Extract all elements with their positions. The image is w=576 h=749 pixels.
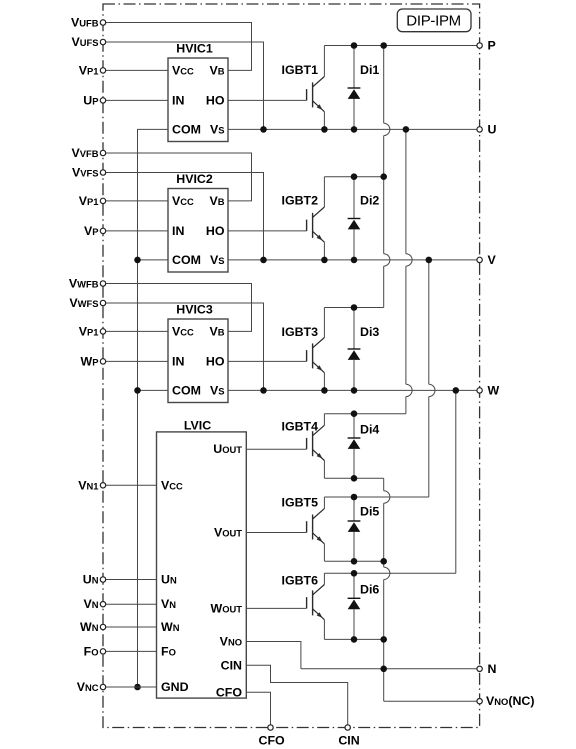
terminal VP1 (group 2)	[100, 198, 105, 203]
junction IGBT6 bottom rail - Di6 anode	[351, 636, 358, 643]
terminal label VVFS	[72, 166, 99, 180]
junction U rail - U feed	[403, 126, 410, 133]
wire WN to LVIC WN	[103, 626, 157, 628]
terminal label VWFS	[69, 296, 98, 310]
HVIC2 pin label VS	[210, 253, 225, 267]
HVIC3 pin label IN	[172, 354, 184, 368]
transistor IGBT2	[307, 177, 325, 260]
svg-text:UP: UP	[83, 93, 98, 107]
svg-text:VB: VB	[209, 63, 224, 77]
svg-text:IGBT2: IGBT2	[282, 194, 319, 208]
svg-text:HO: HO	[206, 354, 225, 368]
HVIC3 pin label VCC	[172, 324, 194, 338]
svg-text:V: V	[488, 253, 497, 267]
HVIC1 pin label COM	[172, 122, 201, 136]
junction IGBT5 bottom rail - Di5 anode	[351, 558, 358, 565]
svg-text:VS: VS	[210, 253, 225, 267]
wire LVIC VNO to N node	[246, 642, 301, 669]
junction N rail - emitter bus	[380, 666, 387, 673]
svg-text:COM: COM	[172, 122, 201, 136]
svg-text:VNO(NC): VNO(NC)	[486, 694, 534, 708]
junction IGBT4 top rail - Di4	[351, 410, 358, 417]
svg-text:N: N	[488, 662, 497, 676]
HVIC2 pin label VCC	[172, 194, 194, 208]
wire WP to HVIC3 IN	[103, 360, 168, 362]
svg-text:COM: COM	[172, 253, 201, 267]
svg-text:HO: HO	[206, 224, 225, 238]
IGBT1 label	[282, 63, 319, 77]
svg-text:VN: VN	[161, 597, 176, 611]
svg-text:VP1: VP1	[79, 63, 99, 77]
junction IGBT4 bottom rail - Di4 anode	[351, 475, 358, 482]
svg-text:VP1: VP1	[79, 324, 99, 338]
transistor IGBT3	[307, 308, 325, 391]
diode Di5	[348, 497, 361, 561]
terminal P	[477, 43, 482, 48]
junction U rail - VxFS drop	[260, 126, 267, 133]
svg-text:VCC: VCC	[172, 324, 194, 338]
wire U phase rail (VS1)	[228, 128, 480, 130]
terminal label VNO(NC)	[486, 694, 534, 708]
LVIC pin label WN	[161, 620, 180, 634]
svg-text:UOUT: UOUT	[213, 442, 242, 456]
op-amp-style driver IC HVIC1 box	[168, 58, 228, 142]
package boundary frame (dash-dot)	[103, 4, 480, 728]
svg-text:Di2: Di2	[360, 194, 379, 208]
svg-text:FO: FO	[84, 644, 99, 658]
wire VP1 to HVIC3 VCC	[103, 330, 168, 332]
terminal label VP1 (group 1)	[79, 63, 99, 77]
junction U rail - diode anode	[351, 126, 358, 133]
LVIC pin label VNO	[220, 635, 242, 649]
junction COM bus - HVIC3 COM	[134, 387, 141, 394]
wire VNC to LVIC GND	[103, 686, 157, 688]
svg-text:VUFB: VUFB	[71, 16, 99, 30]
wire HVIC1 HO to IGBT1 gate	[228, 99, 307, 101]
wire N node rail	[301, 668, 480, 670]
wire U feed to IGBT4 collector	[406, 129, 412, 413]
wire V phase rail (VS2)	[228, 259, 480, 261]
junction IGBT5 bottom rail - emitter bus	[380, 558, 387, 565]
LVIC title	[184, 418, 211, 432]
svg-text:Di1: Di1	[360, 63, 379, 77]
LVIC pin label VCC	[161, 478, 183, 492]
junction COM bus - HVIC2 COM	[134, 257, 141, 264]
svg-text:IN: IN	[172, 354, 184, 368]
HVIC3 title	[176, 302, 213, 316]
junction IGBT3 top rail - Di3	[351, 304, 358, 311]
op-amp-style driver IC HVIC2 box	[168, 189, 228, 273]
wire IGBT5 emitter bottom rail	[324, 560, 383, 562]
svg-text:Di6: Di6	[360, 583, 379, 597]
terminal VWFB	[100, 281, 105, 286]
junction IGBT2 top rail - P feed	[380, 173, 387, 180]
terminal label CIN	[338, 734, 359, 748]
svg-text:CIN: CIN	[221, 658, 242, 672]
LVIC pin label CIN	[221, 658, 242, 672]
diode Di1	[348, 46, 361, 130]
diode Di3	[348, 308, 361, 391]
terminal VP1 (group 1)	[100, 68, 105, 73]
svg-text:IN: IN	[172, 224, 184, 238]
wire HVIC3 HO to IGBT3 gate	[228, 360, 307, 362]
wire IGBT6 collector top rail	[324, 572, 455, 574]
svg-text:W: W	[488, 383, 500, 397]
terminal VP	[100, 228, 105, 233]
HVIC2 title	[176, 172, 213, 186]
wire VUFS to VS rail	[103, 42, 264, 129]
junction W rail - IGBT emitter	[321, 387, 328, 394]
wire VVFB bootstrap to HVIC2 VB	[103, 153, 252, 201]
HVIC2 pin label VB	[209, 194, 224, 208]
svg-text:UN: UN	[83, 573, 99, 587]
terminal CFO	[268, 725, 273, 730]
terminal V	[477, 257, 482, 262]
wire LVIC UOUT to IGBT4 gate	[246, 448, 306, 450]
LVIC pin label CFO	[216, 685, 243, 699]
svg-text:WN: WN	[80, 620, 99, 634]
LVIC pin label VN	[161, 597, 176, 611]
svg-text:HVIC1: HVIC1	[176, 41, 213, 55]
transistor IGBT5	[307, 497, 325, 561]
Di4 label	[360, 423, 379, 437]
svg-text:VWFB: VWFB	[69, 277, 99, 291]
IGBT4 label	[282, 420, 319, 434]
junction IGBT5 top rail - Di5	[351, 494, 358, 501]
wire P rail	[324, 45, 479, 47]
svg-text:VNO: VNO	[220, 635, 242, 649]
HVIC3 pin label COM	[172, 383, 201, 397]
terminal label U	[488, 122, 497, 136]
terminal label VP	[84, 224, 99, 238]
terminal label VN1	[78, 478, 98, 492]
IGBT2 label	[282, 194, 319, 208]
svg-text:P: P	[488, 39, 496, 53]
IGBT5 label	[282, 496, 319, 510]
terminal label WP	[81, 354, 99, 368]
svg-text:WN: WN	[161, 620, 180, 634]
junction V rail - V feed	[426, 257, 433, 264]
IGBT3 label	[282, 325, 319, 339]
svg-text:HVIC3: HVIC3	[176, 302, 213, 316]
junction V rail - diode anode	[351, 257, 358, 264]
svg-text:IGBT5: IGBT5	[282, 496, 319, 510]
terminal WP	[100, 359, 105, 364]
svg-text:VCC: VCC	[172, 63, 194, 77]
svg-text:Di4: Di4	[360, 423, 379, 437]
svg-text:VVFS: VVFS	[72, 166, 99, 180]
svg-text:GND: GND	[161, 680, 189, 694]
junction V rail - VxFS drop	[260, 257, 267, 264]
svg-text:CFO: CFO	[216, 685, 243, 699]
junction IGBT2 top rail - Di2	[351, 173, 358, 180]
terminal VP1 (group 3)	[100, 329, 105, 334]
terminal VWFS	[100, 300, 105, 305]
svg-text:IGBT4: IGBT4	[282, 420, 319, 434]
wire HVIC2 HO to IGBT2 gate	[228, 230, 307, 232]
wire W phase rail (VS3)	[228, 389, 480, 391]
diode Di6	[348, 573, 361, 639]
HVIC1 title	[176, 41, 213, 55]
svg-text:UN: UN	[161, 573, 177, 587]
junction P rail - Di1	[351, 42, 358, 49]
svg-text:VVFB: VVFB	[71, 146, 98, 160]
HVIC1 pin label VB	[209, 63, 224, 77]
HVIC3 pin label HO	[206, 354, 225, 368]
wire HVIC2 COM to control ground bus	[138, 259, 169, 261]
LVIC pin label UOUT	[213, 442, 242, 456]
wire VUFB bootstrap to HVIC1 VB	[103, 23, 252, 71]
HVIC1 pin label IN	[172, 93, 184, 107]
wire VP to HVIC2 IN	[103, 230, 168, 232]
Di1 label	[360, 63, 379, 77]
terminal label VP1 (group 3)	[79, 324, 99, 338]
wire P feed to IGBT2/IGBT3 collectors	[384, 46, 390, 308]
terminal label WN	[80, 620, 99, 634]
HVIC1 pin label VCC	[172, 63, 194, 77]
svg-text:FO: FO	[161, 644, 176, 658]
wire W feed to IGBT6 collector	[455, 390, 457, 573]
wire VVFS to VS rail	[103, 173, 264, 260]
wire LVIC CIN to CIN terminal	[246, 665, 347, 727]
svg-text:VNC: VNC	[77, 680, 99, 694]
terminal label FO	[84, 644, 99, 658]
svg-text:VS: VS	[210, 383, 225, 397]
svg-text:Di3: Di3	[360, 325, 379, 339]
svg-text:VUFS: VUFS	[71, 35, 98, 49]
svg-text:DIP-IPM: DIP-IPM	[406, 12, 461, 29]
wire HVIC3 COM to control ground bus	[138, 389, 169, 391]
wire HVIC1 COM to control ground bus	[138, 129, 169, 130]
HVIC1 pin label VS	[210, 122, 225, 136]
wire IGBT4 emitter bottom rail	[324, 477, 383, 479]
LVIC pin label VOUT	[214, 526, 242, 540]
wire emitter bus to VNO(NC)	[384, 700, 480, 702]
terminal VNO(NC)	[477, 699, 482, 704]
terminal label N	[488, 662, 497, 676]
terminal label VP1 (group 2)	[79, 194, 99, 208]
svg-text:IN: IN	[172, 93, 184, 107]
terminal UN	[100, 577, 105, 582]
terminal label VNC	[77, 680, 99, 694]
svg-text:Di5: Di5	[360, 504, 379, 518]
wire LVIC VOUT to IGBT5 gate	[246, 532, 306, 534]
wire FO to LVIC FO	[103, 650, 157, 652]
HVIC3 pin label VS	[210, 383, 225, 397]
junction W rail - diode anode	[351, 387, 358, 394]
LVIC pin label UN	[161, 573, 177, 587]
wire IGBT5 collector top rail	[324, 496, 428, 498]
svg-text:VP1: VP1	[79, 194, 99, 208]
svg-text:CFO: CFO	[259, 734, 286, 748]
terminal VUFS	[100, 39, 105, 44]
HVIC2 pin label HO	[206, 224, 225, 238]
terminal label VVFB	[71, 146, 98, 160]
terminal W	[477, 388, 482, 393]
terminal label VN	[83, 597, 98, 611]
svg-text:HVIC2: HVIC2	[176, 172, 213, 186]
wire VP1 to HVIC2 VCC	[103, 200, 168, 202]
wire VWFS to VS rail	[103, 303, 264, 390]
terminal label VWFB	[69, 277, 99, 291]
HVIC3 pin label VB	[209, 324, 224, 338]
svg-text:VOUT: VOUT	[214, 526, 242, 540]
LVIC pin label WOUT	[211, 601, 243, 615]
terminal FO	[100, 649, 105, 654]
terminal WN	[100, 624, 105, 629]
svg-text:VCC: VCC	[161, 478, 183, 492]
terminal U	[477, 127, 482, 132]
svg-text:LVIC: LVIC	[184, 418, 211, 432]
svg-text:IGBT1: IGBT1	[282, 63, 319, 77]
DIP-IPM title box	[397, 9, 471, 32]
wire UP to HVIC1 IN	[103, 99, 168, 101]
svg-text:VWFS: VWFS	[69, 296, 98, 310]
svg-text:VP: VP	[84, 224, 99, 238]
terminal label UP	[83, 93, 98, 107]
wire VN to LVIC VN	[103, 603, 157, 605]
HVIC2 pin label IN	[172, 224, 184, 238]
terminal label VUFB	[71, 16, 99, 30]
terminal VN	[100, 602, 105, 607]
junction COM bus - GND wire	[134, 684, 141, 691]
svg-text:IGBT3: IGBT3	[282, 325, 319, 339]
wire LVIC WOUT to IGBT6 gate	[246, 607, 306, 609]
terminal VN1	[100, 483, 105, 488]
transistor IGBT4	[307, 414, 325, 479]
terminal label W	[488, 383, 500, 397]
junction V rail - IGBT emitter	[321, 257, 328, 264]
svg-text:IGBT6: IGBT6	[282, 574, 319, 588]
LVIC pin label GND	[161, 680, 189, 694]
wire VN1 to LVIC VCC	[103, 484, 157, 486]
Di3 label	[360, 325, 379, 339]
LVIC pin label FO	[161, 644, 176, 658]
junction W rail - W feed	[453, 387, 460, 394]
wire IGBT2 collector top rail	[324, 176, 383, 178]
op-amp-style driver IC HVIC3 box	[168, 319, 228, 403]
svg-text:COM: COM	[172, 383, 201, 397]
Di2 label	[360, 194, 379, 208]
wire IGBT6 emitter bottom rail	[324, 638, 383, 640]
terminal VVFS	[100, 170, 105, 175]
terminal label P	[488, 39, 496, 53]
transistor IGBT1	[307, 46, 325, 130]
junction IGBT6 bottom rail - emitter bus	[380, 636, 387, 643]
svg-text:HO: HO	[206, 93, 225, 107]
svg-text:VN: VN	[83, 597, 98, 611]
junction P rail - P feed	[380, 42, 387, 49]
junction U rail - IGBT emitter	[321, 126, 328, 133]
terminal label UN	[83, 573, 99, 587]
junction W rail - VxFS drop	[260, 387, 267, 394]
wire VP1 to HVIC1 VCC	[103, 69, 168, 71]
terminal label VUFS	[71, 35, 98, 49]
HVIC2 pin label COM	[172, 253, 201, 267]
wire V feed to IGBT5 collector	[429, 260, 435, 497]
wire IGBT3 collector top rail	[324, 307, 383, 309]
svg-text:VN1: VN1	[78, 478, 98, 492]
diode Di4	[348, 414, 361, 479]
terminal CIN	[345, 725, 350, 730]
gate driver LVIC box	[157, 432, 247, 698]
svg-text:CIN: CIN	[338, 734, 359, 748]
IGBT6 label	[282, 574, 319, 588]
wire UN to LVIC UN	[103, 579, 157, 581]
svg-text:VCC: VCC	[172, 194, 194, 208]
control ground bus wire (COM / GND)	[137, 129, 139, 687]
svg-text:WOUT: WOUT	[211, 601, 243, 615]
terminal UP	[100, 98, 105, 103]
wire IGBT4 collector top rail	[324, 413, 406, 415]
terminal N	[477, 666, 482, 671]
wire low-side emitter bus	[384, 478, 390, 701]
svg-text:VS: VS	[210, 122, 225, 136]
terminal VVFB	[100, 150, 105, 155]
Di6 label	[360, 583, 379, 597]
transistor IGBT6	[307, 573, 325, 639]
terminal label V	[488, 253, 497, 267]
junction IGBT6 top rail - Di6	[351, 570, 358, 577]
terminal VUFB	[100, 20, 105, 25]
svg-text:U: U	[488, 122, 497, 136]
terminal VNC	[100, 684, 105, 689]
svg-text:WP: WP	[81, 354, 99, 368]
Di5 label	[360, 504, 379, 518]
terminal label CFO	[259, 734, 286, 748]
HVIC1 pin label HO	[206, 93, 225, 107]
wire LVIC CFO to CFO terminal	[246, 692, 270, 727]
wire VWFB bootstrap to HVIC3 VB	[103, 284, 252, 332]
svg-text:VB: VB	[209, 194, 224, 208]
diode Di2	[348, 177, 361, 260]
svg-text:VB: VB	[209, 324, 224, 338]
